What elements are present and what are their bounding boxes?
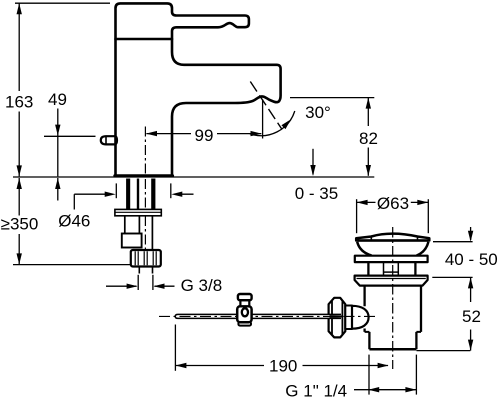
svg-text:40 - 50: 40 - 50 (445, 250, 498, 269)
svg-text:52: 52 (462, 307, 481, 326)
svg-text:190: 190 (269, 357, 297, 376)
svg-text:G 3/8: G 3/8 (181, 276, 223, 295)
svg-text:0 - 35: 0 - 35 (295, 184, 338, 203)
svg-text:82: 82 (359, 129, 378, 148)
svg-text:Ø63: Ø63 (377, 194, 409, 213)
svg-text:≥350: ≥350 (1, 215, 39, 234)
svg-text:163: 163 (5, 93, 33, 112)
svg-text:30°: 30° (305, 103, 331, 122)
svg-text:49: 49 (48, 90, 67, 109)
svg-text:99: 99 (195, 126, 214, 145)
svg-text:G 1" 1/4: G 1" 1/4 (285, 381, 347, 400)
svg-text:Ø46: Ø46 (58, 212, 90, 231)
